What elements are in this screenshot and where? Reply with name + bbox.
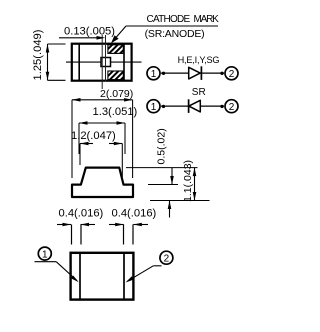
pin 2 circled callout (160, 251, 173, 264)
0.13 extension line right (105, 35, 107, 82)
top view left terminal line (78, 44, 80, 81)
dimension 1.3(.051) dimension line with arrows (79, 121, 125, 125)
dimension 1.3(.051) text (93, 106, 138, 118)
dimension 1.1(.043) text rotated (182, 160, 194, 202)
0.4 right dimension arrows (109, 223, 148, 227)
1.25 top extension tick (48, 43, 66, 45)
schematic row 1 pin 1 circled (147, 67, 160, 80)
dimension 0.5 down arrow line (170, 168, 174, 185)
svg-text:SR: SR (192, 87, 206, 98)
bottom view package body outline (71, 253, 134, 300)
dimension 1.25(.049) vertical dimension line with arrows (46, 44, 50, 80)
schematic row 1 diode D1 anode-left (189, 66, 202, 80)
dimension 2(.079) dimension line with arrows (72, 98, 133, 102)
pin 1 circled callout (38, 247, 51, 260)
side view top face extension line L1 (126, 167, 198, 169)
schematic row 1 pin 2 circled (225, 67, 238, 80)
schematic row 2 pin 1 circled (147, 100, 160, 113)
svg-text:1: 1 (151, 102, 157, 113)
svg-text:1.3(.051): 1.3(.051) (93, 106, 138, 118)
schematic row 2 wire left (161, 105, 189, 107)
1.25 bottom extension tick (48, 79, 66, 81)
1.3 left extension line (78, 123, 80, 154)
schematic row 1 right node dot (220, 72, 223, 75)
pin 1 leader underline (35, 261, 57, 263)
schematic row 1 wire left (161, 72, 189, 74)
(SR:ANODE) label (145, 28, 205, 40)
dimension 2(.079) text (100, 88, 133, 100)
dimension 1.2(.047) dimension line with arrows (80, 142, 122, 146)
dimension 0.5(.02) text rotated (156, 128, 168, 164)
bottom view left pad line (79, 252, 81, 301)
svg-text:1: 1 (42, 249, 48, 260)
schematic row 2 label SR (192, 87, 206, 98)
schematic row 1 wire right (201, 72, 224, 74)
top view package body outline (72, 44, 132, 81)
1.2 left extension line (79, 144, 81, 166)
schematic row 2 wire right (200, 105, 224, 107)
svg-text:2: 2 (164, 254, 170, 265)
schematic row 2 left node dot (162, 105, 165, 108)
dimension 0.13(.005) leader line with arrow (59, 36, 105, 40)
side view right outer extension line (132, 100, 134, 178)
cathode mark upper hatched area (101, 38, 136, 56)
top view horizontal centerline (66, 61, 142, 63)
pin 2 leader underline (153, 265, 161, 267)
svg-text:CATHODE: CATHODE (147, 14, 191, 25)
cathode mark lower hatched area (101, 65, 136, 83)
svg-text:2(.079): 2(.079) (100, 88, 133, 100)
schematic row 2 diode D2 cathode-left (189, 99, 201, 113)
bottom view right pad line (123, 252, 125, 301)
lower up arrow line at bottom extension (168, 201, 172, 218)
svg-text:MARK: MARK (194, 14, 220, 25)
0.13 extension line left (101, 35, 103, 89)
dimension text 0.4(.016) right (112, 208, 157, 220)
1.3 right extension line (124, 123, 126, 154)
CATHODE MARK label (147, 14, 220, 25)
svg-text:1: 1 (151, 69, 157, 80)
schematic row 2 right node dot (220, 105, 223, 108)
dimension text 0.13(.005) (64, 26, 115, 38)
dimension text 0.4(.016) left (59, 208, 104, 220)
svg-text:2: 2 (229, 69, 235, 80)
pin 1 leader line with arrow (56, 262, 79, 283)
side view bottom extension line L3 (150, 200, 210, 202)
0.4 left dimension arrows (57, 223, 95, 227)
schematic row 1 label H,E,I,Y,SG (178, 55, 220, 65)
dimension text 1.25(.049) rotated (32, 29, 44, 80)
top view center square mark (101, 58, 111, 67)
0.4 extension lines right pair (124, 225, 134, 245)
schematic row 2 pin 2 circled (225, 100, 238, 113)
svg-text:0.4(.016): 0.4(.016) (112, 208, 157, 220)
side view left outer extension line (71, 100, 73, 178)
CATHODE MARK underline (126, 25, 218, 27)
svg-text:(SR:ANODE): (SR:ANODE) (145, 28, 205, 40)
dimension 1.2(.047) text (71, 130, 116, 142)
1.2 right extension line (121, 144, 123, 178)
svg-text:1.2(.047): 1.2(.047) (71, 130, 116, 142)
0.4 extension lines left pair (72, 225, 82, 245)
side view shelf extension line L2 (148, 184, 178, 186)
svg-text:2: 2 (229, 102, 235, 113)
dimension 1.1(.043) dimension line with arrows (193, 168, 197, 201)
top view right terminal line (123, 44, 125, 81)
svg-text:0.5(.02): 0.5(.02) (156, 128, 168, 164)
svg-text:1.1(.043): 1.1(.043) (182, 160, 194, 202)
schematic row 1 left node dot (162, 72, 165, 75)
svg-text:0.13(.005): 0.13(.005) (64, 26, 115, 38)
side view package body outline (72, 168, 133, 197)
cathode mark leader line with arrow (111, 26, 126, 43)
svg-text:1.25(.049): 1.25(.049) (32, 29, 44, 80)
svg-text:0.4(.016): 0.4(.016) (59, 208, 104, 220)
pin 2 leader line with arrow (126, 266, 154, 283)
svg-text:H,E,I,Y,SG: H,E,I,Y,SG (178, 55, 220, 65)
